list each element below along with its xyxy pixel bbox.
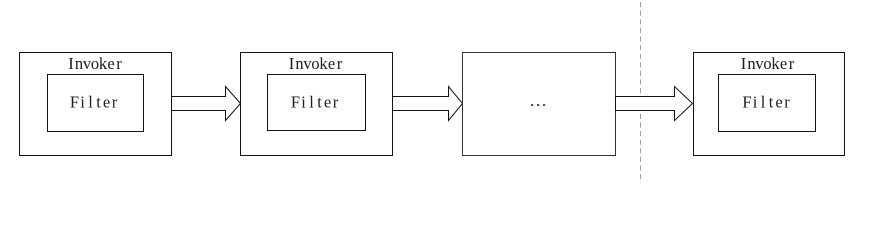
arrow 2 xyxy=(393,87,463,121)
filter box 1 xyxy=(48,75,144,132)
svg-text:Invoker: Invoker xyxy=(289,54,343,73)
svg-text:Invoker: Invoker xyxy=(741,54,795,73)
arrow 3 xyxy=(616,87,693,121)
invoker box 4 xyxy=(694,53,845,156)
invoker box 2 xyxy=(241,53,393,156)
dashed separator line xyxy=(640,2,642,183)
filter box 2 xyxy=(268,75,366,131)
ellipsis dots xyxy=(531,104,533,106)
invoker box 1 xyxy=(20,53,172,156)
arrow 1 xyxy=(172,87,241,121)
svg-text:Invoker: Invoker xyxy=(68,54,122,73)
filter box 4 xyxy=(719,75,816,132)
ellipsis box 3 xyxy=(463,53,616,156)
